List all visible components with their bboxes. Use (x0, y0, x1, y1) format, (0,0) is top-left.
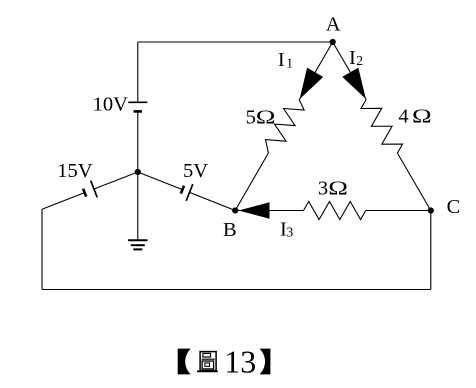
label I1 (278, 49, 293, 71)
battery 10V (128, 102, 147, 111)
svg-text:Ω: Ω (256, 106, 276, 129)
wire 10V upper vertical (137, 42, 139, 102)
wire left drop (41, 209, 43, 289)
svg-text:10V: 10V (93, 94, 129, 116)
wire 5V branch right segment to node B (190, 192, 236, 210)
current arrow I3 (239, 202, 270, 218)
wire 5-ohm resistor to node B (235, 153, 268, 211)
battery 5V (181, 184, 193, 201)
wire 10V lower vertical to centre node and ground (137, 111, 139, 240)
svg-text:4: 4 (398, 106, 408, 128)
svg-text:A: A (326, 13, 341, 35)
svg-text:15V: 15V (57, 160, 93, 182)
svg-text:I: I (349, 47, 356, 69)
node A (326, 13, 341, 45)
wire node B to 3-ohm resistor (235, 210, 303, 212)
wire bottom (42, 289, 431, 291)
label I3 (280, 218, 294, 240)
svg-text:3: 3 (318, 178, 328, 200)
node B (223, 207, 238, 241)
svg-text:1: 1 (286, 55, 293, 70)
wire 15V branch lower segment (42, 193, 85, 210)
resistor 5-ohm (266, 100, 305, 153)
svg-text:3: 3 (287, 224, 294, 239)
caption figure 13 (178, 344, 271, 380)
battery 15V (83, 181, 97, 198)
svg-text:I: I (278, 49, 285, 71)
svg-text:5V: 5V (183, 160, 208, 182)
wire top (node A to 10V branch) (138, 41, 333, 43)
resistor 4-ohm (361, 100, 403, 154)
resistor 3-ohm (304, 202, 366, 220)
current arrow I1 (300, 68, 324, 100)
svg-text:B: B (223, 219, 237, 241)
wire 4-ohm resistor to node C (397, 153, 430, 210)
svg-text:Ω: Ω (328, 177, 348, 200)
svg-text:13: 13 (224, 344, 256, 380)
current arrow I2 (342, 68, 366, 99)
node C (428, 196, 461, 218)
wire 15V branch upper segment (94, 172, 138, 189)
wire 5V branch left segment (138, 172, 183, 190)
svg-text:5: 5 (246, 107, 256, 129)
ground (128, 240, 147, 249)
svg-text:C: C (447, 196, 461, 218)
wire A to 4-ohm resistor (333, 42, 367, 100)
node centre junction (135, 169, 141, 175)
wire A to 5-ohm resistor (299, 42, 333, 100)
svg-text:Ω: Ω (412, 105, 432, 128)
wire 3-ohm resistor to node C (366, 210, 431, 212)
wire right rise to node C (430, 211, 432, 290)
svg-text:2: 2 (356, 53, 363, 68)
label I2 (349, 47, 363, 69)
